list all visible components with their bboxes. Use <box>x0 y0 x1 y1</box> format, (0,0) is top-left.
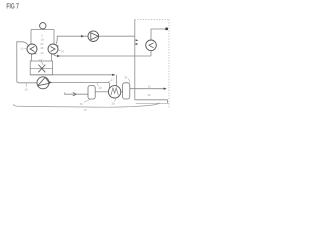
wire turbine T2 top-right elbow to pump P2 <box>56 36 88 44</box>
svg-text:FIG 7: FIG 7 <box>6 2 19 11</box>
wire pump P1 outlet to motor M top-left <box>50 82 110 88</box>
svg-text:19: 19 <box>41 37 45 41</box>
label 15 <box>20 47 27 51</box>
arrow on pump P2 outlet line <box>81 35 85 37</box>
wire long pipe from valve box to motor M top <box>30 75 116 86</box>
wire turbine T2 bottom-right elbow to long line <box>54 54 152 56</box>
svg-text:23: 23 <box>39 58 43 62</box>
wire turbine T1 bottom drop to valve box <box>31 54 33 61</box>
label 16 <box>58 49 65 53</box>
wire vessel A to motor M <box>95 91 108 93</box>
svg-text:16: 16 <box>61 49 65 53</box>
HX chevron <box>149 43 154 48</box>
wire turbine T2 bottom drop to valve box <box>51 54 53 61</box>
pump P2 circle <box>88 31 99 42</box>
arrow on vessel B right line <box>164 88 167 90</box>
svg-text:36: 36 <box>124 75 128 79</box>
wire pump P2 outlet to right vertical <box>99 35 135 37</box>
valve box <box>30 61 52 75</box>
arrowheads <box>49 35 167 90</box>
label 28 <box>112 98 117 105</box>
label 26 <box>97 83 102 90</box>
turbine T2 circle <box>48 44 58 54</box>
turbine T1 chevron <box>30 47 35 52</box>
wire left circle to far-left pipe <box>17 42 37 83</box>
motor M circle <box>108 86 120 98</box>
label 35 <box>80 99 91 106</box>
svg-text:14: 14 <box>40 51 44 55</box>
wire top shaft line <box>31 29 54 31</box>
arrows at right vertical junction <box>136 39 139 41</box>
wire HX circle bottom drop <box>150 51 152 56</box>
wire right drop from top line to turbine T2 <box>53 30 55 45</box>
pump P1 triangle <box>38 77 50 85</box>
wire HX top pipe to dot <box>151 29 167 40</box>
vessel A <box>88 86 95 99</box>
svg-text:18: 18 <box>40 46 44 50</box>
turbine T2 rim arrows <box>49 45 59 54</box>
motor M zigzag <box>111 88 118 95</box>
pump P1 circle <box>37 77 49 89</box>
turbine T1 circle <box>27 44 37 54</box>
vessel B <box>123 83 130 99</box>
wire bottom right pipe <box>135 100 168 103</box>
valve V1 bowtie <box>38 65 45 73</box>
arrow on pump P1 outlet <box>49 81 52 83</box>
wire enclosure bottom line <box>136 102 169 104</box>
wire left drop from top line to turbine T1 <box>30 30 32 45</box>
valve V1 pipe <box>30 68 52 70</box>
HX circle right <box>146 40 157 51</box>
wire vessel A inlet pipe <box>65 93 88 95</box>
svg-text:29: 29 <box>148 93 152 97</box>
label 36 <box>124 75 130 82</box>
svg-text:13: 13 <box>83 108 87 112</box>
svg-text:35: 35 <box>80 102 84 106</box>
svg-text:17: 17 <box>111 77 115 81</box>
arrow open chevron on vessel A inlet <box>73 93 77 96</box>
label 17 <box>108 77 114 81</box>
svg-text:28: 28 <box>112 102 116 106</box>
wire right main vertical <box>134 20 136 100</box>
valve V1 label leader 23 <box>41 61 43 65</box>
svg-text:25: 25 <box>148 85 152 89</box>
wire vessel B right line to dashed wall <box>130 88 166 90</box>
pump P2 triangle <box>91 33 98 40</box>
arrow on T2 bottom line <box>57 55 60 57</box>
wire motor M to vessel B <box>121 91 123 93</box>
motor circle top <box>40 23 46 29</box>
dashed enclosure <box>135 20 169 109</box>
svg-text:15: 15 <box>20 47 24 51</box>
node dot at HX top pipe end <box>165 28 168 31</box>
arrow on long pipe to motor M <box>112 74 115 76</box>
svg-text:26: 26 <box>99 86 103 90</box>
label 24 <box>25 83 29 91</box>
turbine T2 chevron <box>51 47 56 52</box>
turbine T1 rim arrows <box>27 45 36 54</box>
svg-text:24: 24 <box>25 87 29 91</box>
bottom brace curve <box>14 103 161 107</box>
